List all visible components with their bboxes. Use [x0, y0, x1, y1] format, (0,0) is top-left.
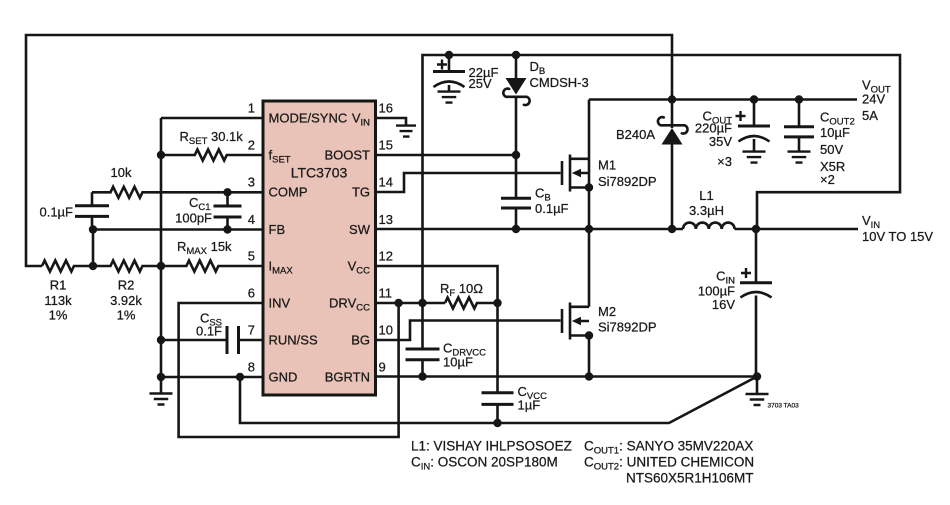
wire DRVCC pin row	[376, 302, 446, 305]
wire VCC pin to CVCC	[376, 266, 498, 392]
label node VOUT 24V 5A	[862, 78, 891, 124]
wire M1 drain to VOUT rail and source to SW	[588, 100, 591, 230]
svg-text:9: 9	[379, 360, 386, 375]
U1 pin 14 TG	[352, 175, 393, 200]
U1 pin 12 VCC	[348, 249, 393, 277]
wire GND to bottom ground bus	[240, 377, 757, 424]
wire DRVCC supply rail from VIN	[423, 55, 901, 303]
capacitor CB 0.1uF bootstrap	[501, 155, 569, 229]
U1 pin 15 BOOST	[324, 138, 392, 163]
svg-text:10µF: 10µF	[443, 355, 473, 370]
svg-text:15: 15	[379, 138, 393, 153]
node CDRVCC bottom on BGRTN	[418, 372, 426, 380]
wire BG pin to M2 gate	[376, 321, 561, 341]
node BOOST / CB junction	[512, 151, 520, 159]
capacitor 22uF 25V bypass	[433, 55, 498, 103]
node CC1 bottom on FB	[223, 225, 231, 233]
wire FB row	[93, 228, 263, 231]
wire VOUT rail	[589, 98, 857, 101]
svg-text:M1: M1	[598, 158, 616, 173]
node R2 / ground rail junction	[157, 262, 165, 270]
svg-text:7: 7	[248, 323, 255, 338]
node COUT2 on VOUT	[795, 95, 803, 103]
svg-text:0.1µF: 0.1µF	[535, 201, 569, 216]
wire VOUT feedback top rail from node VOUT down left side to R1	[26, 35, 672, 266]
svg-text:R1: R1	[50, 278, 67, 293]
svg-text:Si7892DP: Si7892DP	[598, 174, 657, 189]
node L1 right / CIN / VIN feed	[752, 225, 760, 233]
svg-text:1: 1	[248, 101, 255, 116]
node fSET ground rail junction	[157, 151, 165, 159]
svg-text:1%: 1%	[117, 308, 136, 323]
svg-text:1µF: 1µF	[518, 398, 541, 413]
capacitor 0.1uF compensation	[39, 192, 109, 229]
U1 pin 7 RUN/SS	[248, 323, 318, 348]
svg-text:FB: FB	[269, 222, 286, 237]
ground system	[746, 394, 769, 405]
node R1-R2 junction	[89, 262, 97, 270]
svg-text:12: 12	[379, 249, 393, 264]
node 22uF on rail	[445, 51, 453, 59]
inductor L1 3.3uH	[683, 188, 735, 229]
ground at U1 VIN pin	[396, 126, 416, 137]
resistor R1 113k 1%	[42, 261, 93, 323]
svg-text:LTC3703: LTC3703	[291, 165, 348, 181]
U1 pin 10 BG	[351, 323, 393, 348]
capacitor CDRVCC 10uF	[406, 303, 487, 377]
resistor R2 3.92k 1%	[93, 261, 161, 323]
U1 pin 2 fSET	[248, 138, 291, 166]
svg-text:11: 11	[379, 286, 393, 301]
wire ground stub	[756, 377, 759, 394]
U1 pin 1 MODE/SYNC	[248, 101, 347, 126]
capacitor CIN 100uF 16V	[698, 229, 772, 377]
svg-text:3: 3	[248, 175, 255, 190]
svg-text:B240A: B240A	[616, 127, 655, 142]
node B240A anode / L1 on SW	[668, 225, 676, 233]
capacitor CSS 0.1F soft-start	[161, 311, 263, 355]
ground left rail	[150, 394, 173, 405]
wire pin1 MODE/SYNC to ground rail	[161, 117, 263, 120]
capacitor CC1 100pF	[175, 192, 241, 229]
resistor RF 10ohm	[440, 281, 498, 309]
wire FB tap down to divider	[92, 230, 95, 267]
wire SW row	[376, 228, 684, 231]
svg-text:2: 2	[248, 138, 255, 153]
diode DB CMDSH-3 bootstrap schottky	[503, 55, 588, 155]
wire VIN rail	[735, 228, 859, 231]
node M2 source-body	[585, 331, 593, 339]
svg-text:10µF: 10µF	[820, 125, 850, 140]
svg-text:8: 8	[248, 360, 255, 375]
svg-text:RUN/SS: RUN/SS	[269, 333, 318, 348]
svg-text:INV: INV	[269, 296, 291, 311]
node M2 source on BGRTN	[585, 372, 593, 380]
svg-text:NTS60X5R1H106MT: NTS60X5R1H106MT	[626, 471, 754, 486]
svg-text:SW: SW	[349, 222, 371, 237]
svg-text:0.1µF: 0.1µF	[39, 205, 73, 220]
svg-text:14: 14	[379, 175, 393, 190]
node CC1 top on COMP	[223, 188, 231, 196]
wire INV tied to DRVCC loop	[179, 303, 399, 437]
diode B240A boost schottky	[616, 100, 688, 230]
svg-text:6: 6	[248, 286, 255, 301]
svg-text:25V: 25V	[469, 76, 492, 91]
svg-text:3.3µH: 3.3µH	[689, 203, 724, 218]
svg-text:TG: TG	[352, 185, 370, 200]
node B240A top on VOUT	[668, 95, 676, 103]
svg-text:13: 13	[379, 212, 393, 227]
capacitor COUT 220uF 35V x3	[695, 100, 770, 170]
node RUN/SS ground rail junction	[157, 336, 165, 344]
U1 pin 11 DRVCC	[329, 286, 392, 314]
svg-text:0.1F: 0.1F	[196, 324, 222, 339]
U1 pin 3 COMP	[248, 175, 308, 200]
svg-text:10: 10	[379, 323, 393, 338]
node GND ground rail junction	[157, 373, 165, 381]
svg-text:1%: 1%	[49, 308, 68, 323]
node DB anode on rail	[512, 51, 520, 59]
node system ground junction	[753, 372, 761, 380]
node CVCC bottom on ground bus	[493, 419, 501, 427]
transistor M1 Si7892DP	[562, 155, 657, 192]
U1 pin 16 VIN	[352, 101, 393, 129]
node CB bottom on SW	[512, 225, 520, 233]
resistor RSET 30.1k	[161, 129, 263, 161]
node M1 source on SW	[585, 225, 593, 233]
svg-text:L1: L1	[699, 188, 713, 203]
svg-text:L1: VISHAY IHLPSOSOEZ: L1: VISHAY IHLPSOSOEZ	[411, 439, 572, 454]
svg-text:BOOST: BOOST	[324, 148, 370, 163]
svg-text:×2: ×2	[820, 172, 835, 187]
U1 pin 6 INV	[248, 286, 291, 311]
transistor M2 Si7892DP	[562, 229, 657, 377]
svg-text:Si7892DP: Si7892DP	[598, 320, 657, 335]
capacitor COUT2 10uF 50V X5R x2	[784, 100, 855, 188]
capacitor CVCC 1uF	[482, 384, 548, 423]
svg-text:3703 TA03: 3703 TA03	[768, 403, 800, 410]
U1 pin 5 IMAX	[248, 249, 294, 277]
svg-text:3.92k: 3.92k	[110, 293, 142, 308]
resistor 10k	[92, 165, 263, 198]
svg-text:×3: ×3	[717, 154, 732, 169]
svg-text:5A: 5A	[862, 108, 878, 123]
node INV loop on DRVCC	[394, 299, 402, 307]
op-amp/controller IC U1 LTC3703 body	[263, 101, 376, 395]
svg-text:COMP: COMP	[269, 185, 308, 200]
node FB / 0.1uF junction	[89, 225, 97, 233]
svg-text:35V: 35V	[709, 134, 732, 149]
U1 pin 13 SW	[349, 212, 393, 237]
wire U1 VIN pin 16 to ground	[376, 118, 407, 125]
label node VIN 10V TO 15V	[862, 213, 933, 244]
svg-text:50V: 50V	[820, 142, 843, 157]
svg-text:MODE/SYNC: MODE/SYNC	[269, 111, 348, 126]
svg-text:CMDSH-3: CMDSH-3	[530, 75, 589, 90]
wire TG pin to M1 gate	[376, 173, 561, 192]
svg-text:GND: GND	[269, 370, 298, 385]
node RF right / VCC junction	[493, 299, 501, 307]
svg-text:16: 16	[379, 101, 393, 116]
svg-text:M2: M2	[598, 304, 616, 319]
U1 pin 8 GND	[248, 360, 298, 385]
resistor RMAX 15k	[161, 239, 263, 272]
svg-text:4: 4	[248, 212, 255, 227]
svg-text:BGRTN: BGRTN	[325, 370, 370, 385]
svg-text:100pF: 100pF	[175, 211, 212, 226]
node M1 source-body	[585, 183, 593, 191]
svg-text:10k: 10k	[111, 165, 132, 180]
svg-text:10V TO 15V: 10V TO 15V	[862, 229, 933, 244]
wire BGRTN row	[376, 375, 758, 378]
node CDRVCC top on DRVCC	[418, 299, 426, 307]
svg-text:R2: R2	[118, 278, 135, 293]
svg-text:16V: 16V	[712, 297, 735, 312]
U1 pin 4 FB	[248, 212, 285, 237]
wire GND pin row	[161, 376, 263, 379]
svg-text:24V: 24V	[862, 92, 885, 107]
wire BOOST pin row	[376, 154, 517, 157]
node COUT on VOUT	[750, 95, 758, 103]
wire left ground rail	[160, 118, 163, 393]
U1 pin 9 BGRTN	[325, 360, 386, 385]
svg-text:5: 5	[248, 249, 255, 264]
svg-text:113k: 113k	[44, 293, 72, 308]
svg-text:BG: BG	[351, 333, 370, 348]
node GND loop junction	[236, 373, 244, 381]
